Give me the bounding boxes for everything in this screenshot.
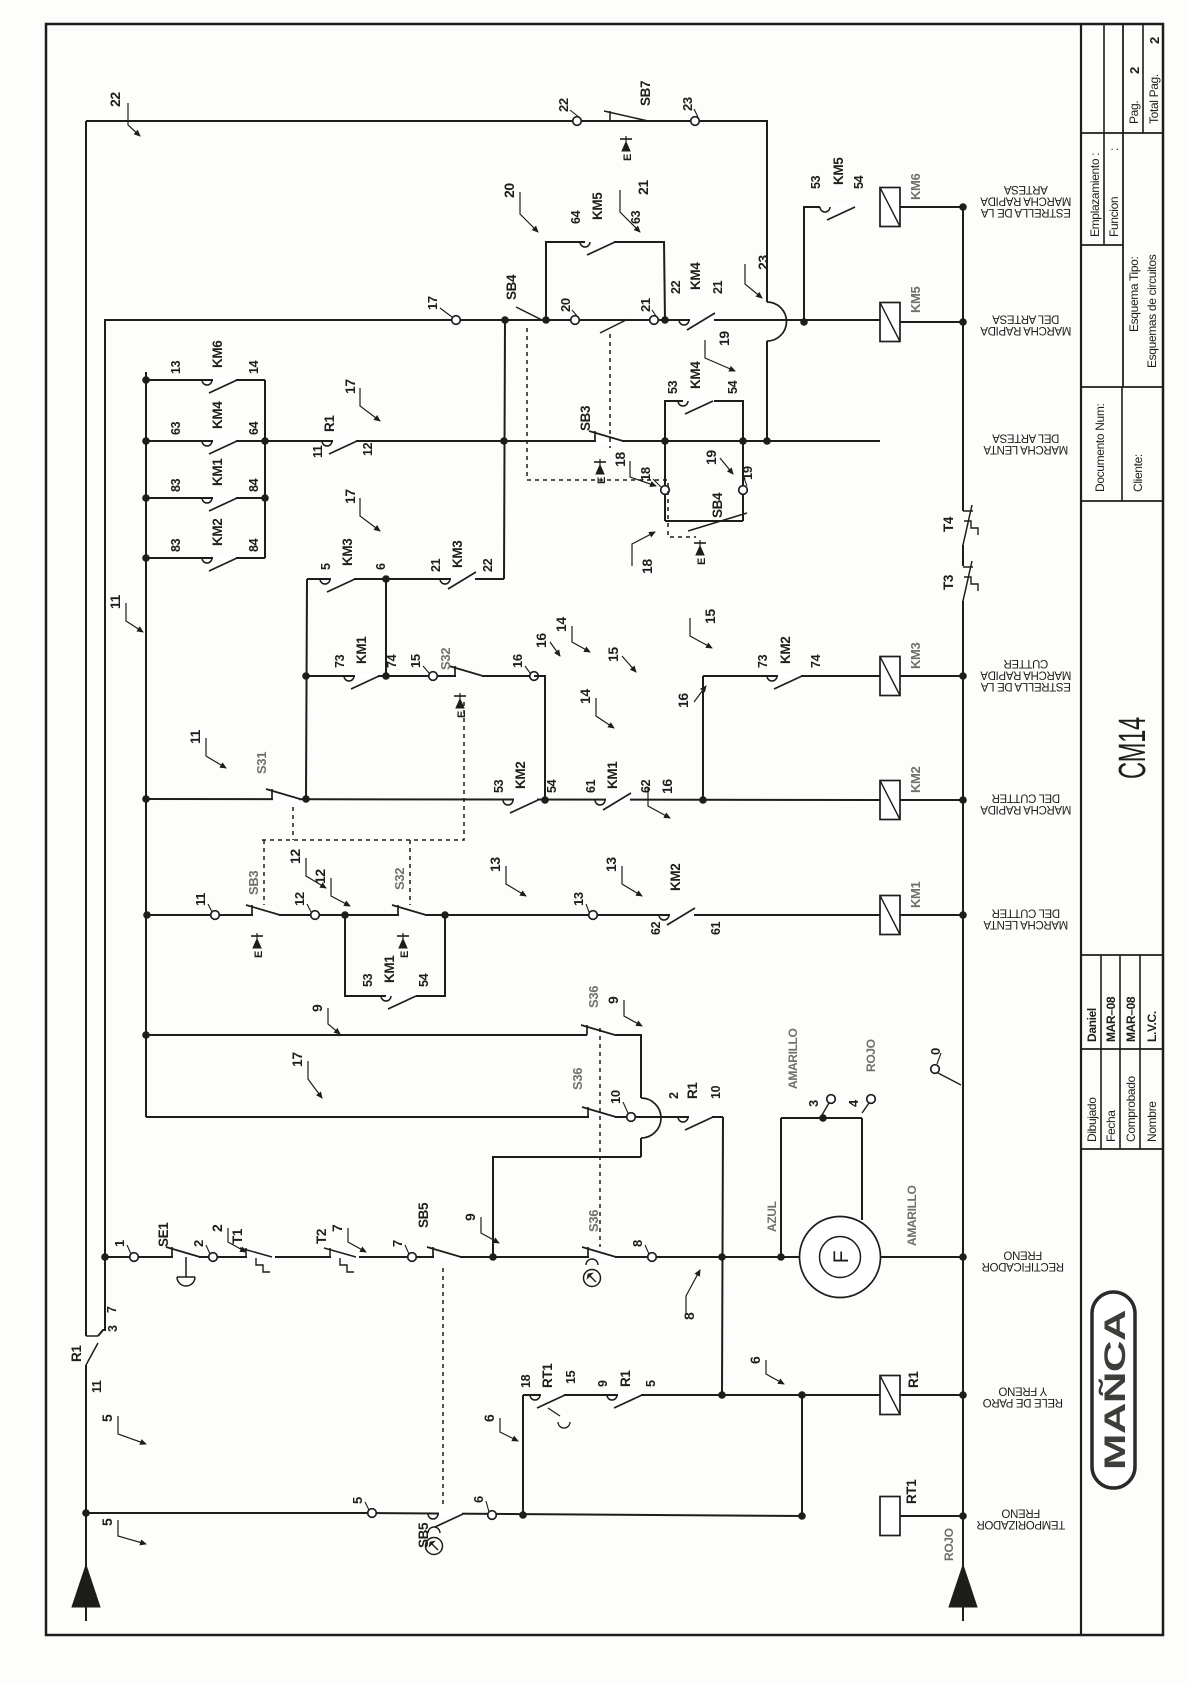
svg-text:8: 8 [681,1312,697,1320]
contact KM2 61-62 (NC) [670,913,694,917]
wire rung rectifier (x=427) [105,1256,800,1258]
svg-text:53: 53 [361,973,375,987]
contact KM1 61-62 (NC) [606,798,630,802]
svg-text:17: 17 [289,1052,305,1067]
coil KM3 [880,657,900,696]
svg-text:9: 9 [596,1380,610,1387]
svg-text:19: 19 [740,466,755,480]
svg-text:S36: S36 [586,986,601,1008]
wire branch KM1 83-84 rung [146,497,265,499]
wire rung KM1 (x=769) [147,914,880,916]
terminal 23 [691,117,700,126]
wire net 9 elbow with hop over rung 10 [615,1035,641,1098]
pushbutton SB4 contact 1 (NO) [516,307,542,320]
svg-text:KM6: KM6 [210,340,225,368]
wire bus net 11 (line y=146) [145,372,147,1117]
terminal 16 [530,672,539,681]
svg-text:KM2: KM2 [908,766,923,793]
wire net 15/17 horizontal y=504 [504,320,505,579]
svg-text:15: 15 [408,654,423,668]
svg-text:74: 74 [385,654,399,668]
svg-text:11: 11 [187,729,203,744]
wire net AZUL branch [780,1118,782,1257]
svg-text:KM4: KM4 [688,361,703,389]
svg-text:22: 22 [556,98,571,112]
svg-text:15: 15 [702,609,718,624]
coil RT1 (timer) [880,1497,900,1536]
contact KM4 53-54 (NO) [689,399,712,403]
svg-text:R1: R1 [322,415,337,432]
svg-text:E: E [253,951,265,958]
svg-text:MARCHA RAPIDA: MARCHA RAPIDA [980,803,1071,815]
svg-text:10: 10 [709,1085,723,1099]
svg-text:84: 84 [247,538,261,552]
svg-text:AMARILLO: AMARILLO [786,1028,800,1089]
node branch rejoin [441,911,449,919]
svg-text:Comprobado: Comprobado [1124,1075,1138,1142]
wire coil RT1 to bottom rail [900,1515,963,1517]
wire dashed SB3b drop [263,840,265,905]
svg-text:KM2: KM2 [513,762,528,789]
svg-text:KM1: KM1 [354,636,369,664]
svg-text:53: 53 [492,779,506,793]
contact T2 (NC timer) [331,1255,359,1259]
svg-text:KM1: KM1 [605,761,620,789]
wire link y=386 [385,579,387,676]
wire branch KM2 83-84 rung [146,557,265,559]
svg-text:ARTESA: ARTESA [1003,183,1047,195]
svg-text:T4: T4 [941,516,956,532]
contact T3 (NC timer on rail) [963,566,973,568]
svg-text:63: 63 [169,421,183,435]
terminal 0 stub [931,1065,940,1074]
terminal 10 [627,1113,636,1122]
svg-text:Fecha: Fecha [1104,1110,1118,1142]
svg-text:12: 12 [287,849,303,864]
svg-text:CUTTER: CUTTER [1004,657,1049,669]
contact RT1 15-18 (NO timer delayed) [541,1393,564,1397]
node KM6 branch tap [800,318,808,326]
svg-text:MARCHA RAPIDA: MARCHA RAPIDA [980,195,1071,207]
svg-text:13: 13 [571,892,586,906]
wire net 3 (parallel line under rail) [98,320,122,1336]
node rectifier rung / net 3 [101,1253,109,1261]
svg-text:15: 15 [605,647,621,662]
svg-text:AZUL: AZUL [765,1201,779,1232]
wire net 16 down to KM2 rung [534,676,545,800]
svg-text:22: 22 [669,280,683,294]
svg-text:MAR–08: MAR–08 [1124,996,1138,1042]
wire rung SB6 net 9 (x=649) [146,1034,587,1036]
svg-text:6: 6 [374,563,388,570]
svg-text:23: 23 [755,255,771,270]
wire dashed SB2b drop [409,840,411,905]
wire coil R1 to bottom rail [900,1394,963,1396]
svg-text:16: 16 [510,654,525,668]
wire rung R1 (x=289) [523,1394,880,1396]
wire branch KM5 63-64 (bypass) [546,242,585,320]
wire rung KM3 aux (x=1105) [307,578,504,580]
wire branch KM6 rung [804,207,820,322]
svg-text:SB7: SB7 [638,81,653,106]
svg-text:21: 21 [638,298,653,312]
svg-text:Emplazamiento :: Emplazamiento : [1088,153,1102,237]
node net 6a wire 802 [798,1391,806,1399]
svg-text:R1: R1 [69,1345,84,1362]
svg-text:KM1: KM1 [908,881,923,908]
supply arrow bottom rail [949,1565,977,1607]
wire rung RT1 (x=168) [86,1512,372,1514]
terminal 13 [589,911,598,920]
pushbutton SB5 contact b (NO) [439,1512,462,1516]
svg-text:FRENO: FRENO [1003,1249,1042,1261]
node net 0 wire 722 [718,1391,726,1399]
svg-text:2: 2 [1147,37,1162,44]
svg-text:E: E [696,558,708,565]
svg-text:63: 63 [629,210,643,224]
svg-text:62: 62 [639,779,653,793]
wire dashed link SB5 contacts [442,1264,444,1504]
terminal 22 [573,117,582,126]
pushbutton SB7 (NC emergency) [609,111,611,121]
svg-text:ROJO: ROJO [942,1528,956,1561]
pushbutton SB5 contact a (NC) [434,1255,460,1259]
svg-text:AMARILLO: AMARILLO [905,1185,919,1246]
svg-text:FRENO: FRENO [1001,1507,1040,1519]
svg-text:KM2: KM2 [778,637,793,664]
svg-text:T2: T2 [314,1229,329,1244]
svg-text:14: 14 [247,360,261,374]
wire bottom rail (net 0 ROJO) [962,601,964,1621]
node wire 504 crossing [500,437,508,445]
wire coil KM2 to bottom rail [900,799,963,801]
contact R1 11-12 (NO) [333,439,356,443]
svg-text:E: E [622,154,634,161]
wire top supply rail (net 11) [85,1365,87,1621]
terminal 20 [571,316,580,325]
wire coil KM5 to bottom rail [900,321,963,323]
svg-text:S32: S32 [392,868,407,890]
contact T4 (NC timer on rail) [963,510,973,512]
terminal 7 [408,1253,417,1262]
svg-text:T1: T1 [230,1228,245,1244]
contact R1 9-5 (NO) [618,1393,641,1397]
svg-text:T3: T3 [941,574,956,590]
svg-text:RT1: RT1 [904,1479,919,1504]
svg-text:11: 11 [90,1380,104,1393]
svg-text:SE1: SE1 [156,1222,171,1247]
svg-text:83: 83 [169,478,183,492]
supply arrow top rail [72,1565,100,1607]
wire coil KM1 to bottom rail [900,914,963,916]
svg-text:SB5: SB5 [416,1522,431,1548]
wire rung KM5 (net 17) [122,319,880,321]
wire rung KM4 63-64 / R1 11-12 (to net 17) [146,440,880,442]
contact KM1 83-84 (NO) [213,496,236,500]
pushbutton SB3 (NC) on KM4 rung [596,439,622,443]
svg-text:18: 18 [519,1374,533,1388]
wire rung net 10 (x=567) [146,1116,723,1118]
svg-text:17: 17 [342,489,358,504]
coil KM2 [880,781,900,820]
svg-text:16: 16 [659,779,675,794]
svg-text:12: 12 [361,442,375,456]
svg-text:6: 6 [747,1356,763,1364]
svg-text:DEL ARTESA: DEL ARTESA [992,313,1059,325]
svg-text:R1: R1 [906,1371,921,1388]
svg-text:Documento Num:: Documento Num: [1093,404,1107,492]
svg-text:9: 9 [462,1213,478,1221]
svg-text:RELE DE PARO: RELE DE PARO [983,1396,1063,1408]
svg-text:6: 6 [471,1496,486,1503]
pushbutton SB6 contact c (NC) [589,1255,615,1259]
terminal 11 [211,911,220,920]
contact R1 2-10 (NO) [689,1115,712,1119]
wire motor to bottom rail [881,1256,964,1258]
svg-text:E: E [399,951,411,958]
node wire 802 tap [798,1512,806,1520]
wire branch KM1 53-54 self hold [345,915,386,996]
svg-text:DEL CUTTER: DEL CUTTER [992,792,1060,804]
terminal 17 [452,316,461,325]
node on rung KM5 at wire 504 [501,316,509,324]
node net 0 tap [718,1253,726,1261]
svg-text:ROJO: ROJO [864,1039,878,1072]
wire dashed link SB6 contacts [599,1028,601,1247]
svg-text:KM5: KM5 [590,192,605,220]
wire net 23 horizontal with hop over KM5 rung [765,121,767,302]
svg-text:MAÑCA: MAÑCA [1098,1310,1132,1470]
node net 9 tap [489,1253,497,1261]
node KM5 63-64 branch rejoin [661,316,669,324]
wire hop over rung x=566 [641,1098,661,1138]
wire rung KM2 (x=884) [146,799,880,800]
svg-text:15: 15 [564,1370,578,1384]
node net KM3 tap [699,796,707,804]
svg-text:18: 18 [612,452,628,467]
svg-text:14: 14 [553,617,569,632]
svg-text:22: 22 [107,92,123,107]
svg-text:3: 3 [106,1325,120,1332]
wire link RT1/R1 y=802 [801,1395,803,1516]
svg-text:RECTIFICADOR: RECTIFICADOR [982,1260,1064,1272]
svg-text:5: 5 [644,1380,658,1387]
svg-text:54: 54 [545,779,559,793]
wire rung KM1 73-74 (x=1008 upper) [306,675,545,677]
svg-text:11: 11 [193,893,208,906]
coil KM5 [880,303,900,342]
svg-text:64: 64 [569,210,583,224]
svg-text:17: 17 [342,379,358,394]
title block outline [1080,24,1082,1635]
svg-text:Dibujado: Dibujado [1085,1097,1099,1142]
svg-text:5: 5 [350,1497,365,1504]
pushbutton SB2 second contact (NC) [399,913,425,917]
svg-text:62: 62 [649,921,663,935]
svg-text:61: 61 [584,779,598,793]
svg-text:8: 8 [630,1240,645,1247]
node net 6 tap [519,1511,527,1519]
svg-text:S36: S36 [570,1068,585,1090]
wire net 6 link [522,1395,524,1516]
svg-text:MARCHA RAPIDA: MARCHA RAPIDA [980,324,1071,336]
svg-text:16: 16 [675,693,691,708]
svg-text:Esquemas de circuitos: Esquemas de circuitos [1145,254,1159,368]
contact KM1 53-54 (NO) [392,994,415,998]
node azul tap [777,1253,785,1261]
svg-text:10: 10 [608,1090,623,1104]
wire branch KM6 13-14 rung [146,379,265,381]
svg-text:S36: S36 [586,1210,601,1232]
svg-text:12: 12 [312,869,328,884]
svg-text:5: 5 [319,563,333,570]
svg-text:SB3: SB3 [578,405,593,431]
switch SE1 (NC emergency w/ mushroom) [173,1255,199,1259]
node terminal 3 tap [819,1114,827,1122]
terminal 8 [648,1253,657,1262]
svg-text:TEMPORIZADOR: TEMPORIZADOR [977,1518,1065,1530]
wire rung KM3 coil (x=1008 lower) [702,676,704,800]
svg-text:21: 21 [429,558,443,572]
terminal 4 stub [867,1095,876,1104]
svg-text:MARCHA LENTA: MARCHA LENTA [983,918,1068,930]
contact KM1 73-74 (NO) [355,674,378,678]
wire to rectifier [861,1118,863,1220]
contact KM2 53-54 (NO) [514,798,537,802]
coil KM1 [880,896,900,935]
contact KM4 63-64 (NO) [213,439,236,443]
svg-text:2: 2 [191,1240,206,1247]
svg-text:MARCHA LENTA: MARCHA LENTA [983,443,1068,455]
terminal 19 (SB4 loop) [739,486,748,495]
svg-text::: : [1107,148,1121,151]
wire coil KM3 to bottom rail [900,675,963,677]
terminal 5 [368,1509,377,1518]
svg-text:9: 9 [605,996,621,1004]
svg-text:E: E [456,711,468,718]
contact KM3 5-6 (NO) [331,577,354,581]
svg-text:7: 7 [329,1224,345,1232]
node SB4/KM4 loop top [661,437,669,445]
wire dashed link SB1/SB2/SB3 bus [292,807,294,840]
logo MANCA [1092,1292,1135,1488]
svg-text:21: 21 [635,180,651,195]
terminal 15 [429,672,438,681]
svg-text:Esquema Tipo:: Esquema Tipo: [1127,256,1141,332]
svg-text:5: 5 [99,1518,115,1526]
svg-text:KM3: KM3 [908,642,923,669]
svg-text:KM4: KM4 [210,401,225,429]
svg-text:R1: R1 [618,1370,633,1387]
svg-text:20: 20 [501,183,517,198]
svg-text:13: 13 [169,360,183,374]
node wire 386 [382,575,390,583]
wire net corner to R1 rung [722,1117,723,1395]
svg-text:SB5: SB5 [416,1202,431,1228]
svg-text:23: 23 [680,97,695,111]
node SB4/KM4 loop bottom [739,437,747,445]
svg-text:S31: S31 [254,752,269,774]
wire dashed link SB3 contacts [609,334,611,448]
terminal 1 [130,1253,139,1262]
svg-text:17: 17 [425,296,440,310]
svg-text:84: 84 [247,478,261,492]
svg-text:19: 19 [716,331,732,346]
svg-text:KM5: KM5 [831,157,846,185]
svg-text:13: 13 [603,857,619,872]
svg-text:6: 6 [481,1414,497,1422]
svg-text:KM3: KM3 [340,538,355,566]
svg-text:S32: S32 [438,648,453,670]
node wire 306 [302,795,310,803]
svg-text:54: 54 [852,175,866,189]
terminal 12 [311,911,320,920]
svg-text:KM1: KM1 [382,955,397,983]
svg-text:16: 16 [533,633,549,648]
svg-text:R1: R1 [685,1082,700,1099]
pushbutton SB1 (NC) [273,797,299,801]
svg-text:KM5: KM5 [908,286,923,313]
svg-text:2: 2 [209,1224,225,1232]
svg-text:RT1: RT1 [540,1363,555,1388]
pushbutton SB6 contact b (NC) [589,1115,615,1119]
wire joining bar y=265 [264,380,266,558]
svg-text:4: 4 [846,1099,861,1107]
svg-text:53: 53 [809,175,823,189]
terminal 21 [650,316,659,325]
contact KM3 21-22 (NC) [451,577,475,581]
svg-text:18: 18 [639,559,655,574]
svg-text:64: 64 [247,421,261,435]
svg-text:CM14: CM14 [1112,717,1154,779]
contact R1 3-11 (NC on top rail) [86,1335,98,1337]
title block cells [1081,1148,1163,1150]
svg-text:SB3: SB3 [246,871,261,895]
pushbutton SB3 second contact (NC) [253,913,279,917]
svg-text:KM1: KM1 [210,458,225,486]
contact KM4 21-22 (NC) [690,318,714,322]
svg-text:22: 22 [481,558,495,572]
contact KM6 13-14 (NO) [213,378,236,382]
svg-text:KM3: KM3 [450,540,465,568]
pushbutton SB6 contact a (NC) [588,1033,614,1037]
node net16 join [541,796,549,804]
svg-text:73: 73 [756,654,770,668]
pushbutton SB3 contact 2 (NO) [600,320,626,333]
svg-text:21: 21 [711,280,725,294]
svg-text:9: 9 [309,1004,325,1012]
svg-text:11: 11 [107,594,123,609]
svg-text:53: 53 [666,380,680,394]
svg-text:Total Pag.: Total Pag. [1147,74,1161,124]
svg-text:MAR–08: MAR–08 [1104,996,1118,1042]
wire branch SB4 pushbutton loop [664,441,666,486]
svg-text:KM2: KM2 [210,519,225,546]
svg-text:14: 14 [577,689,593,704]
svg-text:KM6: KM6 [908,173,923,200]
svg-text:ESTRELLA DE LA: ESTRELLA DE LA [980,206,1070,218]
svg-text:SB4: SB4 [504,274,519,300]
svg-text:2: 2 [667,1092,681,1099]
wire dashed link SB4 contacts [527,328,696,537]
svg-text:12: 12 [292,892,307,906]
svg-text:F: F [830,1251,853,1263]
contact KM2 83-84 (NO) [213,556,236,560]
svg-text:5: 5 [99,1414,115,1422]
svg-text:KM4: KM4 [688,262,703,290]
svg-text:74: 74 [809,654,823,668]
wire coil KM6 to bottom rail [900,206,963,208]
